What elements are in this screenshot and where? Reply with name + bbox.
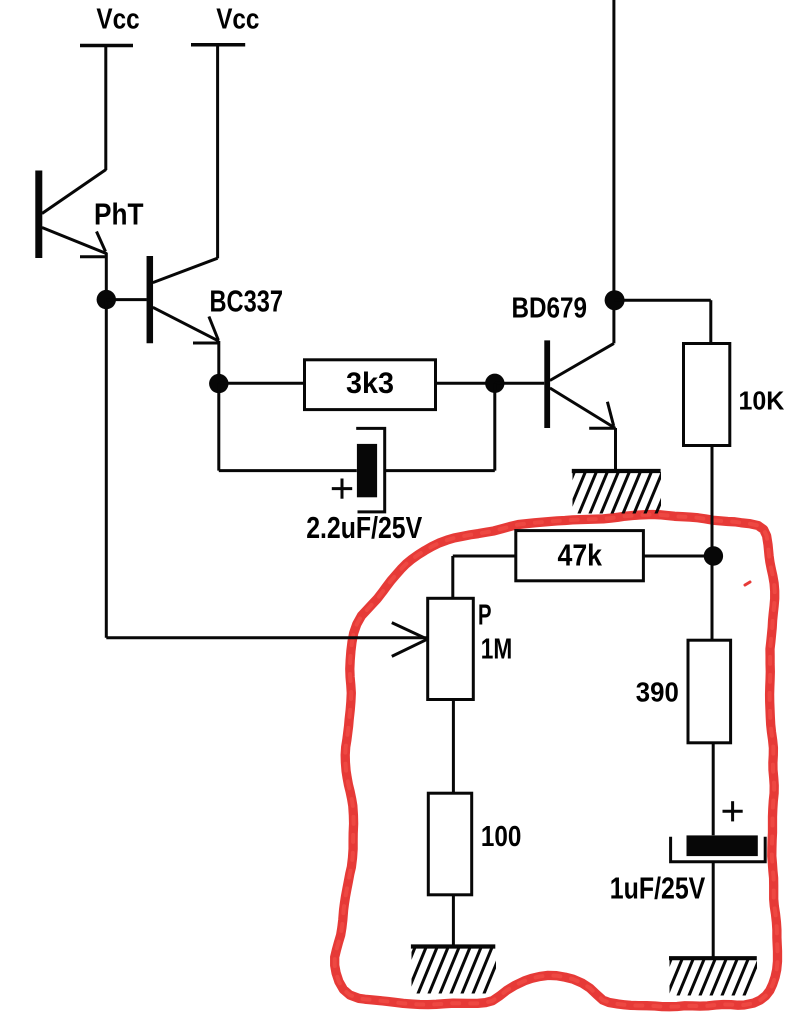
plus sign C1 — [332, 479, 352, 499]
capacitor C2 negative plate bracket — [671, 837, 766, 862]
wire node B down to capacitor C1 — [217, 384, 220, 471]
wire capacitor C2 to ground — [712, 862, 715, 958]
wire to capacitor C1 left plate — [219, 469, 357, 472]
svg-text:2.2uF/25V: 2.2uF/25V — [306, 510, 422, 545]
wire 47k to node E — [643, 555, 704, 558]
wire 390 to capacitor C2 — [712, 743, 715, 836]
wire 47k left — [453, 555, 516, 558]
wire node C to BD679 base — [495, 382, 545, 385]
svg-text:10K: 10K — [739, 386, 785, 416]
svg-text:1M: 1M — [481, 634, 513, 666]
wire capacitor C1 right to node C — [385, 469, 495, 472]
node E junction dot — [704, 546, 723, 565]
svg-text:100: 100 — [481, 821, 522, 853]
potentiometer P 1M — [428, 598, 474, 699]
wire pot to resistor 100 — [452, 700, 455, 794]
wire 10K bottom through node E — [711, 446, 714, 641]
transistor BD679 — [547, 340, 616, 428]
svg-text:1uF/25V: 1uF/25V — [610, 872, 706, 906]
svg-text:P: P — [478, 600, 492, 632]
wire Vcc1 to PhT collector — [104, 46, 107, 171]
capacitor C2 1uF/25V positive plate — [687, 835, 758, 856]
svg-text:Vcc: Vcc — [96, 3, 139, 35]
svg-text:47k: 47k — [558, 537, 603, 572]
Vcc rail bar 2 — [191, 43, 245, 47]
wire node A to BC337 base — [106, 298, 146, 301]
wire node B to resistor 3k3 — [219, 382, 304, 385]
transistor BC337 — [150, 256, 219, 343]
wire down to resistor 10K — [709, 300, 712, 343]
wire BD679 emitter to ground — [614, 428, 617, 470]
wire wiper horizontal — [106, 636, 427, 639]
wire 3k3 to node C — [436, 382, 492, 385]
wire node A down left rail — [105, 300, 108, 638]
resistor 47k — [516, 531, 644, 581]
node D junction dot — [605, 290, 625, 310]
resistor 100 — [428, 793, 471, 895]
wire BD679 collector up to top edge — [612, 0, 615, 343]
wire down to potentiometer — [451, 556, 454, 598]
svg-text:Vcc: Vcc — [216, 3, 259, 35]
resistor 10K — [684, 344, 730, 446]
node B junction dot — [209, 374, 228, 393]
wire up to node C — [493, 383, 496, 470]
resistor 390 — [688, 640, 731, 743]
ground under capacitor C2 — [655, 957, 760, 998]
wire PhT emitter to node A — [105, 253, 108, 300]
wire BC337 emitter to node B — [217, 341, 220, 384]
resistor 3k3 — [305, 360, 436, 410]
svg-text:BD679: BD679 — [512, 293, 588, 325]
wire node D to 10K — [615, 299, 711, 302]
plus sign C2 — [723, 801, 743, 821]
red annotation loop — [335, 515, 778, 1007]
capacitor C1 2.2uF/25V positive plate — [357, 444, 377, 497]
capacitor C1 negative plate bracket — [356, 428, 385, 512]
svg-text:390: 390 — [636, 677, 679, 708]
ground under BD679 — [556, 468, 675, 516]
node C junction dot — [485, 374, 504, 393]
svg-text:3k3: 3k3 — [346, 367, 394, 400]
wiper arrow into potentiometer — [392, 623, 428, 657]
svg-text:PhT: PhT — [94, 197, 144, 232]
wire 100 to ground — [452, 895, 455, 946]
node A junction dot — [97, 290, 116, 309]
svg-text:BC337: BC337 — [210, 284, 284, 319]
Vcc rail bar 1 — [80, 44, 133, 48]
ground under resistor 100 — [395, 945, 504, 996]
wire BC337 collector to Vcc2 — [216, 46, 219, 258]
red speck mark — [745, 582, 750, 585]
phototransistor PhT — [39, 170, 107, 259]
